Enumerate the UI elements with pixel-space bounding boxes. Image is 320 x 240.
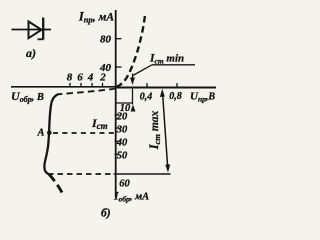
svg-text:8: 8 [67,72,73,84]
svg-text:Iобр, мА: Iобр, мА [113,191,149,204]
svg-text:Iпр, мА: Iпр, мА [78,10,114,25]
svg-text:0,8: 0,8 [169,91,182,102]
svg-text:50: 50 [117,151,128,162]
svg-text:40: 40 [116,138,128,149]
svg-text:0,4: 0,4 [140,92,153,103]
svg-text:а): а) [26,46,36,60]
svg-text:60: 60 [119,179,130,190]
svg-text:Iст min: Iст min [149,53,184,66]
svg-text:2: 2 [99,72,106,84]
svg-text:30: 30 [116,125,128,136]
svg-text:4: 4 [87,72,94,84]
svg-text:80: 80 [100,34,112,46]
svg-text:6: 6 [77,72,83,84]
svg-text:б): б) [101,208,111,220]
svg-text:A: A [37,128,45,139]
svg-text:20: 20 [116,112,128,123]
